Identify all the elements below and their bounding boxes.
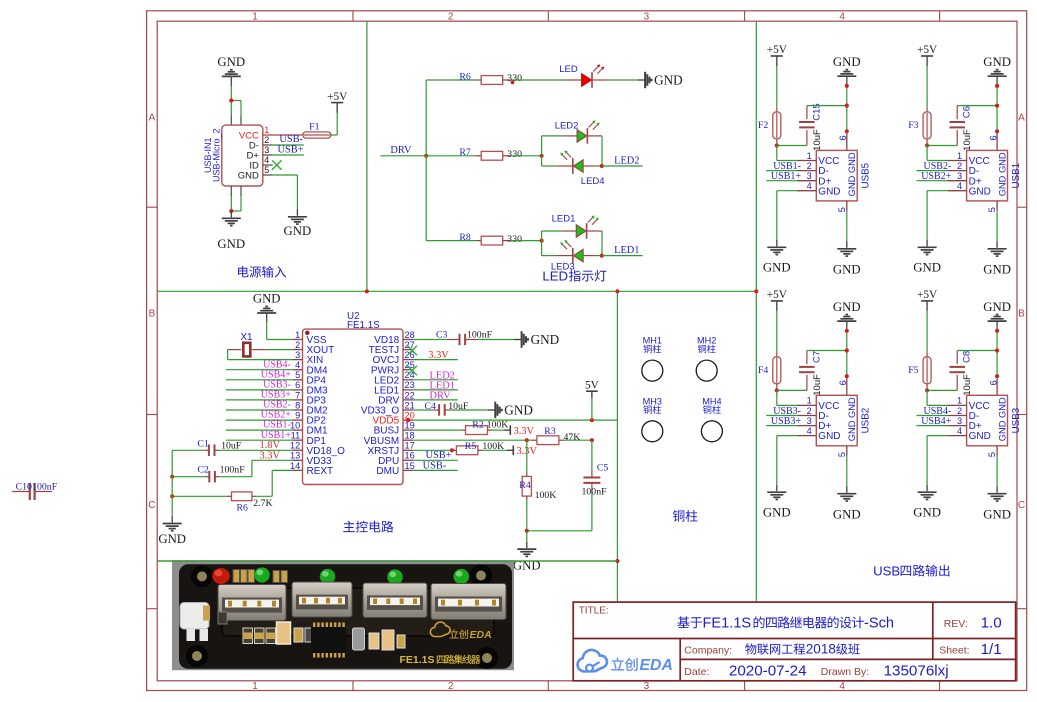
svg-text:LED1: LED1 [552,214,576,225]
svg-text:C8: C8 [962,351,973,363]
svg-text:100K: 100K [535,490,557,501]
ground GND pin5 of USB3 [996,486,998,492]
wire capacitor top to GND column of USB5 [807,105,847,107]
svg-text:GND: GND [158,532,186,546]
wire VD18 to C3 [413,339,436,341]
pin stubs top USB-IN1 [230,115,232,125]
PCB green LED 3 [387,569,403,584]
PCB USB connector 3 [363,583,427,618]
left GND rail of main circuit [171,450,173,516]
svg-text:Date:: Date: [684,666,709,678]
svg-text:100K: 100K [482,441,504,452]
wire LED2 pin24 [413,379,458,381]
wire R7 to LED pair [511,155,542,157]
ground GND bottom of power input [230,211,232,217]
wire crystal to XIN [227,350,229,360]
svg-text:USB-Micro_2: USB-Micro_2 [211,128,221,182]
resistor R4 100K vertical [526,473,528,476]
svg-text:GND GND: GND GND [998,397,1008,441]
svg-text:EDA: EDA [470,629,492,641]
svg-text:5: 5 [987,452,997,457]
svg-text:4: 4 [807,181,812,191]
mounting hole MH1 circle [642,360,663,381]
fuse F1 [303,132,331,138]
svg-text:USB5: USB5 [861,162,872,188]
svg-text:5: 5 [264,165,269,175]
svg-text:C10: C10 [16,482,32,493]
PCB IC chip [311,627,346,653]
wire LED to GND [606,79,637,81]
connector USB5 body [816,150,857,201]
wire D- of USB3 [917,415,948,417]
svg-text:C: C [148,500,155,511]
svg-text:FE1.1S: FE1.1S [400,654,435,666]
svg-text:GND: GND [983,507,1011,521]
wire LED pair3 right vertical [601,231,603,256]
svg-text:1: 1 [252,681,258,692]
USB3 left pin stubs [947,404,966,406]
svg-text:A: A [149,112,156,123]
svg-text:GND: GND [913,505,941,519]
PCB USB connector 4 [431,584,506,620]
svg-text:5: 5 [987,207,997,212]
wire LED pair3 loop left [541,231,543,256]
title text 基于FE1.1S的四路继电器的设计-Sch [677,616,689,628]
svg-text:10uF: 10uF [812,374,823,396]
svg-text:F2: F2 [758,120,768,131]
svg-text:100nF: 100nF [220,464,246,475]
border column ticks [352,11,354,21]
wire VD33 to C2 [252,459,293,461]
svg-text:TITLE:: TITLE: [579,605,609,616]
ground GND left rail [171,516,173,522]
svg-text:2: 2 [807,161,812,171]
wire pin4 GND of USB2 [777,435,797,437]
PCB micro USB connector [180,603,209,630]
wire fuse to VCC pin1 of USB3 [926,390,928,405]
svg-text:GND: GND [833,507,861,521]
wire LED pair2 loop left [541,136,543,166]
LED4 diode [557,165,573,167]
svg-text:GND: GND [969,431,991,442]
svg-text:2: 2 [957,161,962,171]
resistor R6 2.7K [252,495,256,497]
PCB mounting hole top-right [473,568,489,584]
capacitor C7 10uF [806,375,808,390]
svg-text:4: 4 [264,155,269,165]
svg-text:6: 6 [295,380,300,390]
svg-text:C3: C3 [436,330,448,341]
junction LED pair 2 right [600,164,604,168]
capacitor C1 10uF on 1.8V [172,449,204,451]
wire pin4 GND of USB1 [927,190,947,192]
power flag 5V [591,391,593,420]
svg-text:3: 3 [807,416,812,426]
PCB caps near crystal [369,633,379,649]
svg-text:10uF: 10uF [962,374,973,396]
power +5V of USB1 [921,55,933,57]
svg-text:FE1.1S: FE1.1S [703,615,752,631]
svg-text:C5: C5 [597,463,609,474]
wire fuse to VCC pin1 of USB2 [776,390,778,405]
PCB board [179,564,512,669]
svg-text:7: 7 [295,390,300,400]
power flag 3.3V at R5 [507,449,514,451]
USB-IN1 pin stubs right [263,134,273,136]
resistor R8 330 [476,240,481,242]
wire REXT to R6b [272,469,292,471]
fuse F2 [776,107,778,112]
wire VD33_O to C4 [413,409,433,411]
wire VCC pin1 to fuse F1 [273,134,303,136]
svg-text:15: 15 [405,461,415,471]
svg-text:13: 13 [290,451,300,461]
svg-text:GND: GND [253,291,281,305]
title block logo cell divider [679,639,681,681]
wire LED pair3 top branch [542,230,563,232]
svg-text:100nF: 100nF [467,330,493,341]
wire +5V to fuse F4 [776,311,778,352]
junction GND column 2 USB5 [845,104,849,108]
svg-text:GND GND: GND GND [847,152,857,196]
svg-text:10uF: 10uF [448,401,469,412]
U2 right pin stubs [403,339,413,341]
PCB tantalum cap [277,622,291,644]
svg-text:3: 3 [264,145,269,155]
section divider wire vertical x=756 [755,21,757,602]
svg-text:3: 3 [807,171,812,181]
wire pin5 GND of USB3 [996,456,998,487]
PCB green LED 4 [454,569,470,584]
svg-text:C6: C6 [962,106,973,118]
wire DRV stub [380,155,426,157]
USB5 left pin stubs [797,160,816,162]
wire fuse to VCC pin1 of USB1 [926,146,928,161]
PCB green LED 1 [254,567,270,582]
ground GND above U2 pin1 [257,312,276,314]
svg-text:C1: C1 [197,438,209,449]
svg-text:C: C [1018,500,1025,511]
junction GND column 1 USB3 [995,329,999,333]
section label 主控电路 [343,521,354,532]
svg-text:2: 2 [448,681,454,692]
svg-text:8: 8 [295,400,300,410]
svg-text:LED2: LED2 [555,121,579,132]
ground GND top of power input [222,75,241,77]
svg-text:1: 1 [807,396,812,406]
wire D- of USB1 [917,170,948,172]
svg-text:9: 9 [295,411,300,421]
power +5V of USB2 [771,300,783,302]
svg-text:F4: F4 [758,365,768,376]
junction GND column 3 USB2 [845,374,849,378]
svg-text:GND: GND [818,431,840,442]
svg-text:100nF: 100nF [32,482,58,493]
wire D+ of USB5 [766,180,797,182]
PCB small parts top row [233,570,240,583]
svg-text:USB-: USB- [423,460,447,471]
svg-text:+5V: +5V [917,44,938,56]
wire GND column of USB3 [996,331,998,376]
junction bottom of USB-IN1 [229,209,233,213]
wire R6 to LED [511,79,566,81]
U2 left net stub wires pins 4-11 [226,369,293,371]
capacitor C4 10uF [438,404,440,416]
junction GND column 2 USB2 [845,348,849,352]
svg-text:2.7K: 2.7K [253,498,272,509]
svg-text:+5V: +5V [917,289,938,301]
resistor R3 47K [532,439,537,441]
resistor R6 330 [476,79,481,81]
ground GND pin5 of USB2 [846,486,848,492]
svg-text:GND: GND [531,332,560,347]
junction divider 1 [365,289,369,293]
wire LED pair2 right vertical [601,136,603,166]
wire pin4 GND of USB5 [777,190,797,192]
svg-text:10: 10 [290,421,300,431]
svg-text:4: 4 [295,360,300,370]
wire fuse to VCC pin1 of USB5 [776,146,778,161]
ground GND top of USB5 [837,75,856,77]
svg-text:330: 330 [507,73,522,84]
wire capacitor top to GND column of USB3 [957,350,997,352]
ground GND pin4 of USB2 [776,485,778,491]
wire D- pin2 [273,144,304,146]
wire GND bus over photo [157,560,617,562]
svg-text:USB3: USB3 [1011,407,1022,433]
wire R7 row [426,155,476,157]
junction divider 4 [615,559,619,563]
junction DRV [424,154,428,158]
wire capacitor top to GND column of USB1 [957,105,997,107]
svg-text:USB: USB [873,563,900,578]
PCB logo 立创EDA gold [430,622,450,636]
wire LED pair3 bottom branch [542,255,557,257]
wire OVCJ [413,359,458,361]
junction VDD5 5V column [590,418,594,422]
svg-text:19: 19 [405,421,415,431]
LED D red [565,79,582,81]
svg-text:GND: GND [833,300,861,314]
wire R4 C5 bottom join [527,530,592,532]
svg-text:FE1.1S: FE1.1S [347,320,380,331]
junction GND column 3 USB1 [995,129,999,133]
svg-text:LED2: LED2 [614,156,639,167]
IC U2 FE1.1S body [303,329,404,484]
svg-text:C2: C2 [197,464,209,475]
svg-text:R6: R6 [459,71,471,82]
svg-text:12: 12 [290,441,300,451]
ground GND top of USB2 [837,320,856,322]
svg-text:330: 330 [507,149,522,160]
stray junction right of R6 [511,81,515,85]
resistor R2 100K [462,429,466,431]
svg-text:MH2: MH2 [697,336,716,346]
section divider wire horizontal y=291 [157,290,756,292]
svg-text:LED4: LED4 [581,176,605,187]
wire +5V to fuse F3 [926,66,928,107]
LED2 diode [563,135,577,137]
svg-text:4: 4 [807,426,812,436]
wire DRV pin22 [413,399,458,401]
svg-text:+5V: +5V [767,289,788,301]
svg-text:GND: GND [217,237,245,251]
junction GND column 2 USB3 [995,348,999,352]
svg-text:MH1: MH1 [643,336,662,346]
wire BUSJ to R2 [413,429,461,431]
svg-text:2: 2 [448,11,454,22]
mounting hole MH4 circle [701,421,722,442]
svg-text:R3: R3 [544,426,556,437]
svg-text:GND: GND [284,224,312,238]
svg-text:B: B [1018,309,1025,320]
junction GND column 1 USB1 [995,84,999,88]
junction GND column 1 USB2 [845,329,849,333]
mounting hole MH2 circle [696,360,717,381]
junction LED pair 3 left [540,239,544,243]
wire LED1 net output [602,255,643,257]
svg-text:135076lxj: 135076lxj [884,662,949,679]
wire connector bottom pins to GND [230,196,232,211]
svg-text:2: 2 [295,340,300,350]
crystal X1 [266,349,292,351]
svg-text:23: 23 [405,380,415,390]
power +5V power input [331,102,343,104]
section divider wire vertical x=367 [366,21,368,291]
capacitor C8 10uF [956,375,958,390]
PCB photo background [172,560,514,670]
junction LED pair 2 left [540,154,544,158]
PCB red LED [212,568,230,584]
junction LED pair 3 right [600,254,604,258]
wire D- of USB2 [766,415,797,417]
section label 铜柱 [673,510,685,522]
svg-text:28: 28 [405,330,415,340]
svg-text:1: 1 [957,151,962,161]
resistor R7 330 [476,155,481,157]
svg-text:REXT: REXT [307,466,334,477]
wire R8 row [426,240,476,242]
svg-text:GND: GND [833,263,861,277]
svg-text:GND: GND [654,73,683,88]
svg-text:GND: GND [833,55,861,69]
svg-text:1: 1 [252,11,258,22]
svg-text:1: 1 [295,330,300,340]
junction below fuse F3 [926,144,928,146]
wire C5 branch down [591,440,593,470]
connector USB3 body [967,395,1008,446]
capacitor C10 100nF floating [12,491,29,493]
ground GND at C3 sideways [514,339,521,341]
svg-text:GND: GND [818,186,840,197]
svg-text:5: 5 [837,207,847,212]
svg-text:LED1: LED1 [614,245,639,256]
junction R6 rail [170,494,174,498]
svg-text:1.0: 1.0 [981,615,1002,632]
svg-text:10uF: 10uF [221,440,242,451]
ground GND pin5 of USB1 [996,242,998,248]
junction XRSTJ [450,448,454,452]
wire pin5 GND of USB2 [846,456,848,487]
svg-text:USB+: USB+ [278,144,304,155]
svg-text:R6: R6 [237,502,249,513]
wire VDD5 5V net [413,419,617,421]
svg-text:2: 2 [957,406,962,416]
svg-text:DMU: DMU [376,466,399,477]
wire pin5 GND of USB1 [996,211,998,242]
U2 left pin stubs [292,339,302,341]
wire D+ of USB2 [766,425,797,427]
svg-text:GND: GND [217,55,245,69]
svg-text:3: 3 [295,350,300,360]
pin 6 stub of USB5 [846,131,848,150]
pin 6 stub of USB1 [996,131,998,150]
wire VBUSM to R3 [413,439,531,441]
wire GND column of USB5 [846,86,848,131]
svg-text:1/1: 1/1 [981,641,1002,658]
junction R4 bottom [525,529,529,533]
svg-text:LED3: LED3 [551,261,575,272]
no-connect X PWRJ pin25 [407,366,417,376]
svg-text:C4: C4 [425,401,437,412]
wire GND column of USB2 [846,331,848,376]
logo text 立创EDA [611,658,624,671]
svg-text:4: 4 [957,426,962,436]
junction GND column 3 USB5 [845,129,849,133]
resistor R5 100K [452,449,457,451]
svg-text:6: 6 [838,380,848,385]
svg-text:LED: LED [559,64,578,75]
svg-text:3: 3 [957,416,962,426]
svg-text:10uF: 10uF [812,129,823,151]
svg-text:C7: C7 [811,351,822,363]
wire fuse to capacitor C8 [927,389,957,391]
svg-text:11: 11 [291,431,301,441]
ground GND below R4 [526,542,528,548]
connector USB1 body [967,150,1008,201]
pin 5 stub of USB1 [996,201,998,211]
svg-text:1: 1 [807,151,812,161]
pin 6 stub of USB2 [846,376,848,395]
svg-text:GND: GND [913,261,941,275]
svg-text:100nF: 100nF [582,487,608,498]
power +5V of USB3 [921,300,933,302]
wire pin4 GND of USB3 [927,435,947,437]
svg-text:+5V: +5V [767,44,788,56]
PCB USB connector 2 [292,582,352,617]
wire fuse to capacitor C7 [777,389,807,391]
svg-text:Drawn By:: Drawn By: [821,666,869,678]
USB1 left pin stubs [947,160,966,162]
svg-text:GND GND: GND GND [998,152,1008,196]
wire DRV vertical distribution [425,80,427,241]
wire to GND below R4 [526,531,528,542]
svg-text:17: 17 [405,441,415,451]
wire D+ of USB1 [917,180,948,182]
ground GND top of USB3 [988,320,1007,322]
connector USB-IN1 body [222,125,263,186]
PCB mounting hole bottom-right [479,650,495,666]
company name 物联网工程2018级班 [745,643,756,654]
section divider wire vertical x=617 [616,291,618,602]
PCB SMD resistor row [243,628,253,644]
svg-text:4: 4 [839,681,845,692]
svg-text:100K: 100K [487,419,509,430]
svg-text:Company:: Company: [684,644,732,656]
PCB mounting hole bottom-left [189,648,205,664]
svg-text:GND: GND [763,261,791,275]
PCB small caps right of tantalum [294,628,303,642]
